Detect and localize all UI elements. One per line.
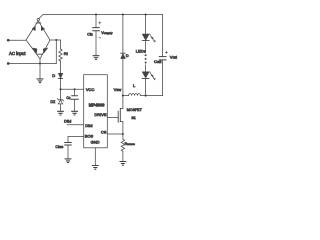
node rail-D junction [122,13,124,15]
svg-text:AC input: AC input [9,51,26,56]
node Dz junction [59,88,61,90]
wire top rail Vsupply [39,15,163,19]
svg-text:DRIVE: DRIVE [94,112,107,117]
svg-text:S1: S1 [131,116,135,120]
node rail-Cin junction [95,13,97,15]
wire LED2 to bottom node [145,79,147,96]
bridge diode BR3 (lower-left) [33,48,37,53]
bridge node circle (DC+) [37,18,39,20]
svg-text:VSW: VSW [114,88,122,92]
label Cout plus [165,51,167,53]
ground (IC GND) [92,166,98,170]
svg-text:DIM: DIM [64,118,71,123]
capacitor C2 [71,96,79,100]
ground (C2) [72,111,78,115]
wire Dz stem [60,89,62,99]
svg-text:GND: GND [91,140,100,145]
bridge diode BR2 (upper-right) [41,27,44,31]
svg-text:Vsupply: Vsupply [101,31,113,35]
AC input terminal bottom [7,62,10,65]
svg-text:DIM: DIM [85,123,92,128]
wire VCC rail [61,88,84,90]
zener diode Dz [58,99,64,104]
wire CS to source [107,133,123,135]
label Cin plus [99,22,101,24]
IC U1 MP4000 [84,75,108,148]
wire Cin to ground [95,31,97,55]
label Cin minus [99,37,101,39]
svg-text:DZ: DZ [50,99,55,104]
bridge rectifier diamond [26,18,50,58]
svg-text:Cin: Cin [87,31,93,36]
wire D to VCC node [60,79,62,90]
wire Cbss to ground [67,145,69,158]
LED LED1 [142,34,155,42]
svg-text:Vout: Vout [170,55,177,60]
LED LED2 [142,72,155,80]
capacitor Cin [93,28,100,31]
svg-text:L: L [133,83,136,88]
bridge diode BR4 (lower-right) [43,48,47,53]
wire BOS to Cbss [68,136,84,142]
wire dots to LED2 [145,65,147,72]
wire Cin stem [95,15,97,28]
ground (Cbss) [65,159,71,163]
wire bridge bottom to ground [39,59,41,79]
bridge diode BR1 (upper-left) [32,27,35,31]
ground (Rsense) [120,162,126,166]
wire source to Rsense [122,134,124,139]
wire Dz to ground [60,104,62,111]
wire D to Vsw [122,59,124,96]
svg-text:VCC: VCC [86,87,95,92]
wire LED1 to dots [145,41,147,53]
wire Cout branch [162,15,164,57]
svg-text:MP4000: MP4000 [89,103,105,108]
svg-text:D: D [126,53,129,58]
ground (Dz) [58,111,64,115]
wire DIM input [67,124,84,126]
node C2 junction [74,88,76,90]
wire Rt to D [60,61,62,73]
wire AC2 riser [55,40,57,64]
resistor Rt [59,49,62,61]
AC input terminal top [7,39,10,42]
svg-text:Rsense: Rsense [125,142,136,146]
node CS-source junction [122,133,124,135]
bridge lower diodes cathode bar [38,53,43,55]
ground (bridge DC-) [37,79,43,83]
wire freewheeling diode branch [122,15,124,54]
diode D (series VCC diode) [58,73,63,78]
capacitor Cbss [65,143,72,146]
wire AC line1 [8,39,26,41]
wire LED branch top [145,15,147,35]
wire AC line2 [8,63,56,65]
wire DRIVE to gate [107,117,118,119]
svg-text:MOSFET: MOSFET [127,108,143,112]
resistor Rsense [121,139,124,151]
svg-text:D: D [52,73,55,78]
node rail-LED junction [145,13,147,15]
node AC2 riser junction [55,39,57,41]
bridge upper diodes cathode bar [36,22,41,24]
node AC2-ground crossing [39,62,41,64]
svg-text:C2: C2 [66,96,70,100]
wire Cout to bottom node [146,60,163,96]
capacitor Cout [159,57,166,60]
svg-text:Rt: Rt [64,51,68,56]
node LED-inductor junction [145,95,147,97]
ground (Cin) [93,56,99,60]
node Vsw junction [122,95,124,97]
svg-text:Cbss: Cbss [55,144,63,149]
inductor L [123,94,146,96]
svg-text:LEDs: LEDs [136,48,146,53]
svg-text:CS: CS [101,130,107,135]
node LED string dots [145,54,147,63]
wire right vertex to Rt [50,39,61,41]
svg-text:BOS: BOS [85,134,94,139]
transistor S1 MOSFET [118,96,123,134]
wire C2 stem [74,89,76,95]
wire Rsense to ground [122,151,124,161]
svg-text:Cout: Cout [154,59,161,64]
wire Rt top [60,40,62,49]
wire GND pin [94,148,96,165]
diode D (freewheeling) [121,53,126,58]
wire C2 to ground [74,100,76,112]
